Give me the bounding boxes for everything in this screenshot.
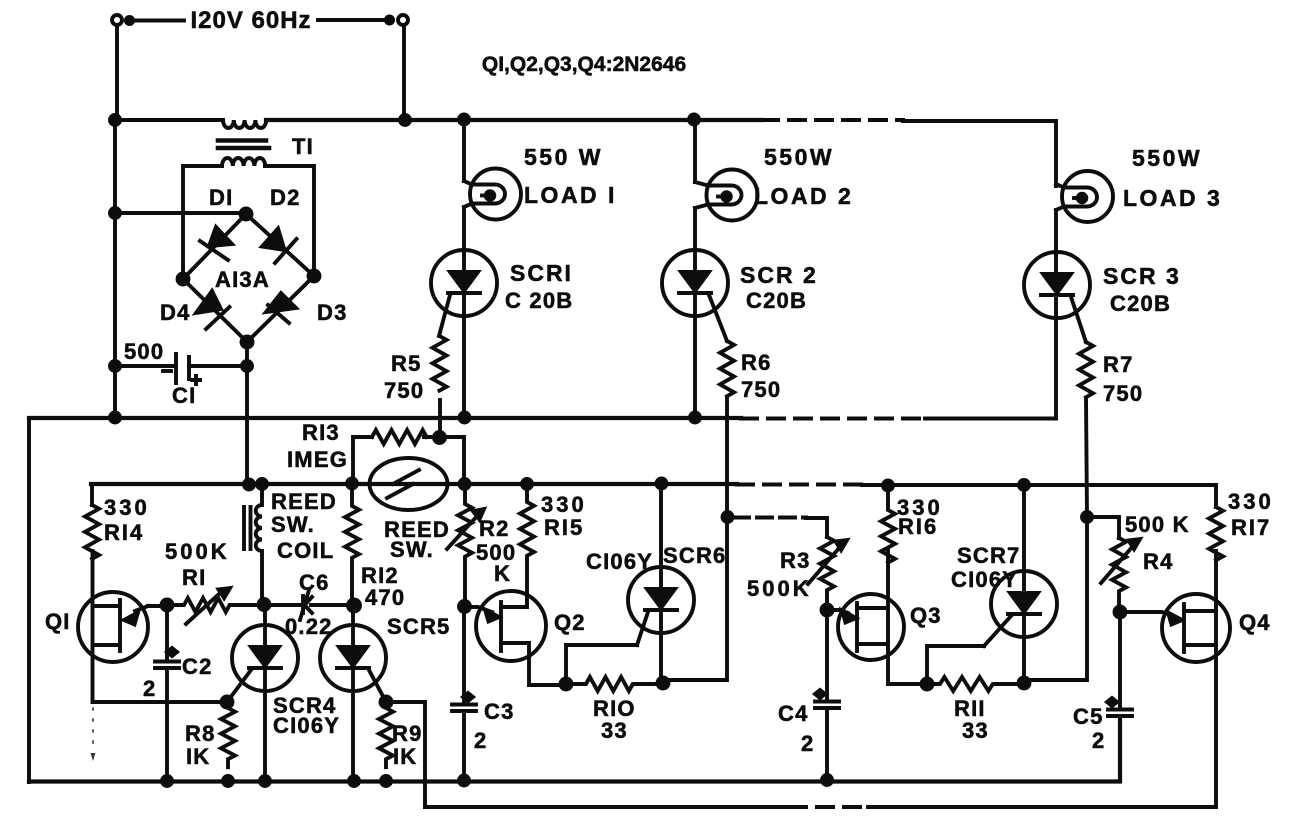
junction dot Q3 B1 node [922, 679, 933, 690]
svg-text:2: 2 [143, 676, 156, 701]
SCR4 [232, 625, 298, 691]
capacitor C3 [462, 607, 466, 702]
junction dot Q1 emitter node [162, 600, 173, 611]
AC source terminal right [398, 15, 408, 25]
wire R1 to coil junction [236, 603, 303, 607]
junction dot rail load1 branch [459, 115, 469, 125]
unijunction transistor Q1 [78, 592, 148, 662]
capacitor C4 [825, 610, 829, 699]
svg-text:RI7: RI7 [1231, 515, 1271, 540]
lower box left edge [27, 418, 31, 782]
transformer T1 secondary winding [222, 158, 265, 166]
junction dot rail at left AC [110, 115, 120, 125]
junction dot bridge feed on rail [244, 480, 254, 490]
wire load rail [29, 416, 741, 420]
wire top rail right solid to load3 corner [903, 121, 1056, 186]
svg-text:500: 500 [124, 339, 164, 364]
resistor R5 750 [433, 336, 447, 391]
junction dot SCR5 cathode bottom [349, 776, 359, 786]
svg-text:SCR6: SCR6 [663, 543, 727, 568]
wire load3 lamp to SCR3 [1054, 210, 1058, 253]
svg-text:SCR7: SCR7 [957, 543, 1021, 568]
resistor R14 330 [90, 484, 94, 505]
svg-text:SCR 3: SCR 3 [1103, 263, 1181, 289]
wire load2 lamp to SCR2 [693, 208, 697, 251]
variable resistor R2 500K [458, 484, 472, 607]
svg-text:R8: R8 [185, 721, 216, 746]
wire second bottom rail right [868, 805, 1216, 809]
junction dot rail at right AC [400, 115, 410, 125]
wire second rail left [91, 482, 737, 486]
svg-text:R4: R4 [1143, 549, 1174, 574]
svg-text:C 20B: C 20B [505, 288, 573, 313]
SCR1 [431, 250, 497, 316]
wire main bottom rail [29, 719, 1120, 782]
variable resistor R1 500K [167, 598, 246, 612]
junction dot SCR5 gate node [381, 697, 392, 708]
svg-text:RI4: RI4 [104, 520, 144, 545]
lamp LOAD 3 [1062, 171, 1113, 222]
svg-text:TI: TI [292, 134, 314, 159]
svg-text:2: 2 [474, 728, 487, 753]
unijunction transistor Q2 [476, 591, 546, 661]
junction dot SCR2 cathode rail [690, 413, 700, 423]
svg-text:LOAD 2: LOAD 2 [754, 183, 853, 209]
svg-text:RI6: RI6 [898, 514, 938, 539]
capacitor C1 [115, 364, 247, 368]
svg-text:750: 750 [384, 378, 424, 403]
svg-text:QI: QI [45, 609, 71, 634]
wire right AC drop [402, 25, 406, 120]
resistor R10 33 [566, 677, 663, 691]
svg-text:R2: R2 [479, 516, 510, 541]
wire R6 down through rails [665, 397, 727, 680]
svg-text:500K: 500K [747, 576, 812, 601]
reed switch (oval) [370, 458, 448, 510]
svg-text:33: 33 [962, 718, 989, 743]
junction dot AC feed [110, 208, 120, 218]
svg-text:R3: R3 [780, 548, 811, 573]
junction dot SCR7 cathode node [1019, 678, 1030, 689]
dashed link to R3 [734, 516, 806, 520]
SCR3 [1024, 252, 1090, 318]
svg-text:I20V 60Hz: I20V 60Hz [190, 7, 311, 34]
resistor R12 470 [345, 483, 359, 606]
junction dot left line C1 [110, 361, 120, 371]
svg-text:550W: 550W [764, 144, 834, 170]
svg-text:0.22: 0.22 [285, 614, 333, 639]
svg-text:D3: D3 [317, 300, 348, 325]
wire Q2 B1 to SCR6 gate [566, 645, 637, 684]
wire SCR5 gate to second bottom rail [386, 702, 425, 807]
junction dot SCR6 anode top [657, 479, 667, 489]
junction dot Q3 emitter node [822, 605, 833, 616]
junction dot R13 right R5 [434, 432, 445, 443]
svg-text:CI06Y: CI06Y [273, 713, 340, 738]
svg-text:R9: R9 [392, 721, 423, 746]
unijunction transistor Q4 [1162, 594, 1230, 662]
svg-text:C4: C4 [778, 701, 809, 726]
junction dot R2 top / R13 drop [460, 479, 470, 489]
resistor R13 1MEG [372, 430, 427, 444]
wire Q3 B1 to SCR7 gate [927, 646, 984, 684]
junction dot C2 bottom [162, 776, 172, 786]
node bridge left [178, 274, 189, 285]
svg-text:D4: D4 [160, 300, 191, 325]
SCR5 [320, 625, 386, 691]
svg-text:R6: R6 [741, 350, 772, 375]
svg-text:33: 33 [601, 718, 628, 743]
reed coil core [244, 507, 251, 549]
resistor R15 330 [520, 484, 534, 560]
svg-text:LOAD 3: LOAD 3 [1123, 185, 1222, 211]
svg-text:Q2: Q2 [554, 610, 586, 635]
svg-text:750: 750 [741, 377, 781, 402]
svg-text:COIL: COIL [277, 538, 334, 563]
wire bridge bottom to C1 node and rail [245, 342, 249, 485]
resistor R8 1K [221, 702, 235, 767]
capacitor C6 0.22 [301, 596, 305, 613]
junction dot Q4 emitter node [1115, 607, 1126, 618]
wire top rail dashed segment [762, 118, 903, 122]
junction dot rail load2 branch [689, 115, 699, 125]
svg-text:IMEG: IMEG [287, 447, 348, 472]
junction dot R3 branch on R6 line [723, 512, 733, 522]
bridge rectifier A13A diamond [183, 214, 314, 342]
capacitor C2 [165, 605, 169, 659]
resistor R11 33 [927, 677, 1024, 691]
transformer T1 core [218, 141, 269, 149]
wire R7 down to SCR7 [1026, 398, 1087, 680]
svg-text:K: K [494, 561, 511, 586]
wire secondary left to bridge [183, 166, 222, 279]
svg-text:C6: C6 [299, 570, 330, 595]
wire load2 branch upper [693, 119, 697, 182]
svg-text:C2: C2 [182, 654, 213, 679]
resistor R9 1K [379, 702, 393, 767]
junction dot reed coil top [257, 479, 267, 489]
svg-text:470: 470 [365, 585, 405, 610]
lamp LOAD 2 [707, 170, 758, 221]
svg-text:R7: R7 [1103, 352, 1134, 377]
wire load1 lamp to SCR1 [462, 207, 466, 251]
svg-text:C20B: C20B [1110, 291, 1171, 316]
svg-text:750: 750 [1103, 381, 1143, 406]
svg-text:2: 2 [1092, 728, 1105, 753]
junction dot load rail left AC [110, 413, 120, 423]
SCR2 [662, 250, 728, 316]
svg-text:IK: IK [393, 744, 417, 769]
resistor R17 330 [1209, 507, 1223, 560]
svg-text:LOAD I: LOAD I [524, 182, 617, 208]
svg-text:QI,Q2,Q3,Q4:2N2646: QI,Q2,Q3,Q4:2N2646 [482, 53, 686, 76]
diode D2 [262, 229, 285, 251]
wire C6 to SCR5 node [311, 603, 354, 607]
lamp LOAD 1 [470, 169, 521, 220]
junction dot coil bottom / SCR4 anode [259, 599, 270, 610]
junction dot Q2 emitter node [459, 601, 470, 612]
svg-text:RI3: RI3 [302, 420, 340, 445]
svg-text:500K: 500K [165, 539, 230, 564]
junction dot SCR6 cathode node [658, 678, 669, 689]
junction dot right terminal [386, 16, 393, 23]
wire second rail dashed [737, 483, 862, 487]
wire left AC drop [115, 25, 119, 120]
svg-text:330: 330 [104, 495, 150, 520]
svg-text:SCRI: SCRI [510, 260, 573, 286]
capacitor C5 [1118, 612, 1122, 707]
junction dot R12 top [347, 479, 357, 489]
svg-text:IK: IK [186, 744, 210, 769]
wire load rail right [925, 417, 1056, 421]
diode D3 [266, 293, 296, 312]
svg-text:AI3A: AI3A [215, 267, 270, 292]
svg-text:RI: RI [182, 565, 206, 590]
svg-text:SW.: SW. [390, 537, 434, 562]
svg-text:2: 2 [801, 731, 814, 756]
resistor R7 750 [1079, 342, 1093, 397]
wire top rail middle [266, 118, 762, 122]
SCR6 [628, 567, 694, 633]
variable resistor R4 500K [1112, 538, 1126, 612]
svg-text:D2: D2 [270, 185, 301, 210]
svg-text:CI06Y: CI06Y [951, 567, 1018, 592]
resistor R6 750 [720, 341, 734, 396]
svg-text:REED: REED [271, 489, 337, 514]
svg-text:C5: C5 [1073, 704, 1104, 729]
wire R4 feed [1087, 517, 1119, 538]
junction dot SCR5 anode / R12 [348, 600, 360, 612]
wire secondary right to bridge [265, 166, 314, 276]
diode D1 [209, 227, 232, 246]
svg-text:CI: CI [172, 383, 196, 408]
wire load1 branch upper [462, 119, 466, 181]
wire top rail left [115, 118, 223, 122]
junction dot R9 bottom [381, 776, 391, 786]
svg-text:C20B: C20B [746, 288, 807, 313]
wire Q1 base1 to SCR4 gate node [93, 700, 228, 704]
wire second bottom rail [425, 805, 790, 809]
svg-text:DI: DI [209, 185, 233, 210]
svg-text:550W: 550W [1132, 145, 1202, 171]
svg-text:CI06Y: CI06Y [586, 549, 653, 574]
junction dot C1 node [242, 361, 252, 371]
resistor R16 330 [881, 486, 895, 563]
wire AC label right [318, 18, 386, 22]
junction dot SCR4 gate node [222, 697, 233, 708]
svg-text:550 W: 550 W [524, 144, 603, 170]
wire load rail dashed [741, 417, 925, 421]
transformer T1 primary winding [223, 120, 266, 128]
variable resistor R3 500K [820, 537, 834, 610]
svg-text:SW.: SW. [271, 512, 315, 537]
junction dot R15 top [522, 479, 532, 489]
svg-text:RI5: RI5 [544, 515, 584, 540]
wire second bottom rail dashed [790, 805, 868, 809]
svg-text:330: 330 [541, 492, 587, 517]
junction dot SCR7 anode top [1019, 480, 1029, 490]
node bridge right [309, 271, 320, 282]
svg-text:SCR5: SCR5 [387, 614, 451, 639]
wire left AC vertical [113, 120, 117, 418]
wire R13 right down to rail [439, 437, 464, 484]
diode D4 [196, 291, 221, 313]
stray scan mark [92, 708, 94, 748]
wire AC feed to bridge top node [115, 211, 246, 215]
junction dot Q2 B1 node [561, 679, 572, 690]
node bridge bottom [242, 337, 253, 348]
junction dot C4 bottom [822, 775, 832, 785]
svg-text:Q3: Q3 [910, 603, 942, 628]
svg-text:330: 330 [1228, 489, 1274, 514]
svg-text:500 K: 500 K [1125, 512, 1190, 537]
wire AC label left [133, 19, 184, 23]
unijunction transistor Q3 [838, 594, 904, 660]
junction dot left terminal [126, 17, 133, 24]
junction dot R16 top [883, 481, 893, 491]
svg-text:R5: R5 [391, 351, 422, 376]
junction dot C3 bottom [459, 776, 469, 786]
reed switch coil winding [256, 484, 262, 604]
junction dot SCR1 cathode rail [460, 413, 470, 423]
junction dot SCR4 cathode bottom [260, 776, 270, 786]
junction dot R8 bottom [223, 776, 233, 786]
junction dot R4 branch on R7 line [1082, 512, 1092, 522]
SCR7 [991, 571, 1057, 637]
svg-text:SCR 2: SCR 2 [740, 262, 818, 288]
node bridge top [241, 209, 252, 220]
svg-text:Q4: Q4 [1239, 610, 1271, 635]
svg-text:C3: C3 [484, 699, 515, 724]
wire second rail right [862, 485, 1216, 507]
AC source terminal left [112, 15, 122, 25]
